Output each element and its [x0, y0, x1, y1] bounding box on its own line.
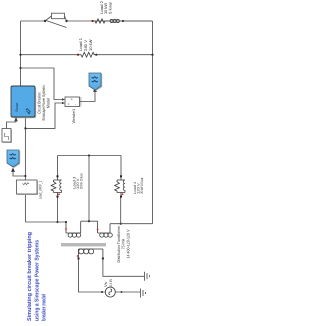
- wire bus mid (breaker low side): [24, 117, 26, 222]
- svg-text:Vbreaker1: Vbreaker1: [71, 109, 76, 123]
- label Load 2: [99, 1, 113, 14]
- arrow reset input: [14, 117, 18, 121]
- svg-text:Model: Model: [46, 98, 51, 108]
- wire loads feeder: [58, 156, 122, 177]
- ground G3: [141, 289, 146, 298]
- svg-text:10 kW: 10 kW: [88, 39, 93, 51]
- node dots load1: [77, 54, 79, 56]
- wire top bus: [20, 21, 22, 87]
- scope badge1: [89, 73, 102, 91]
- wire right drop (top segment): [21, 20, 46, 22]
- breaker B1 blade: [46, 21, 67, 28]
- scope badge2: [7, 150, 20, 168]
- breaker B1 port dots: [44, 20, 46, 22]
- anchor arrow badge2: [11, 168, 15, 172]
- wire secondary 2 return to bottom bus: [110, 223, 153, 225]
- svg-text:20 kW 10 kvar: 20 kW 10 kvar: [140, 177, 144, 194]
- label Load 4: [133, 177, 144, 194]
- svg-text:using a Simscape Power Systems: using a Simscape Power Systems: [33, 240, 40, 321]
- wire load3 bottom: [57, 197, 59, 222]
- transformer secondary winding 2: [98, 221, 113, 237]
- wire primary low side to ground: [103, 259, 144, 277]
- block Vbreaker1: [67, 97, 82, 107]
- wire right drop (lower segment): [67, 20, 153, 22]
- transformer core: [61, 243, 106, 246]
- label Distribution Transformer: [116, 225, 130, 263]
- title annotation: [26, 231, 48, 321]
- resistor Load2 R: [94, 19, 107, 23]
- node dot load2 top: [91, 20, 93, 22]
- svg-text:5 kvar: 5 kvar: [107, 1, 112, 14]
- ground G2: [145, 272, 150, 281]
- capacitor Load2 C: [107, 20, 153, 22]
- svg-text:Simulating circuit breaker tri: Simulating circuit breaker tripping: [26, 231, 33, 321]
- wire bottom bus: [152, 21, 154, 224]
- transformer center connector: [81, 220, 98, 222]
- svg-text:-: -: [73, 104, 77, 105]
- wire Vbreaker output: [80, 92, 96, 102]
- branch Load 3: [51, 176, 61, 196]
- wire load4 bottom: [120, 197, 122, 224]
- breaker B1 box: [45, 16, 67, 21]
- svg-text:14.4 kV: 14.4 kV: [108, 279, 113, 288]
- block Load_240V_1: [18, 181, 39, 195]
- svg-text:v: v: [70, 98, 74, 100]
- wire step to reset: [7, 121, 17, 129]
- wire trafo sec1 riser: [25, 221, 66, 223]
- AC source Vs: [105, 287, 115, 297]
- anchor arrow badge1: [93, 88, 97, 92]
- wire primary to source: [79, 259, 105, 293]
- svg-text:Load_240V_1: Load_240V_1: [38, 181, 43, 200]
- svg-text:breaker model: breaker model: [41, 294, 48, 321]
- transformer primary winding: [79, 249, 103, 259]
- label Load 1: [78, 38, 93, 51]
- label Circuit Breaker: [37, 85, 51, 121]
- block Step (reset source): [3, 130, 12, 144]
- block breaker subsystem: [12, 87, 36, 118]
- svg-text:+: +: [67, 103, 71, 105]
- wire mid tap: [88, 156, 90, 222]
- inductor Load2 L: [110, 19, 113, 22]
- resistor Load1 R: [81, 52, 96, 57]
- wire source to ground: [115, 291, 140, 293]
- wire badge2 anchor: [13, 172, 25, 176]
- icon in breaker block: [26, 109, 31, 115]
- wire Vbreaker minus: [25, 103, 62, 128]
- svg-text:Reset: Reset: [15, 103, 19, 112]
- svg-text:14,400-120-120 V: 14,400-120-120 V: [125, 229, 130, 258]
- wire Vbreaker plus: [21, 68, 63, 100]
- branch Load 4: [115, 176, 125, 196]
- transformer secondary winding 1: [66, 221, 81, 237]
- svg-text:20 kW 10 kvar: 20 kW 10 kvar: [80, 173, 84, 189]
- junction dots top bus: [19, 67, 21, 69]
- wire Load1 line: [21, 54, 153, 56]
- label Load 3: [72, 173, 83, 189]
- label Vs: [103, 279, 113, 288]
